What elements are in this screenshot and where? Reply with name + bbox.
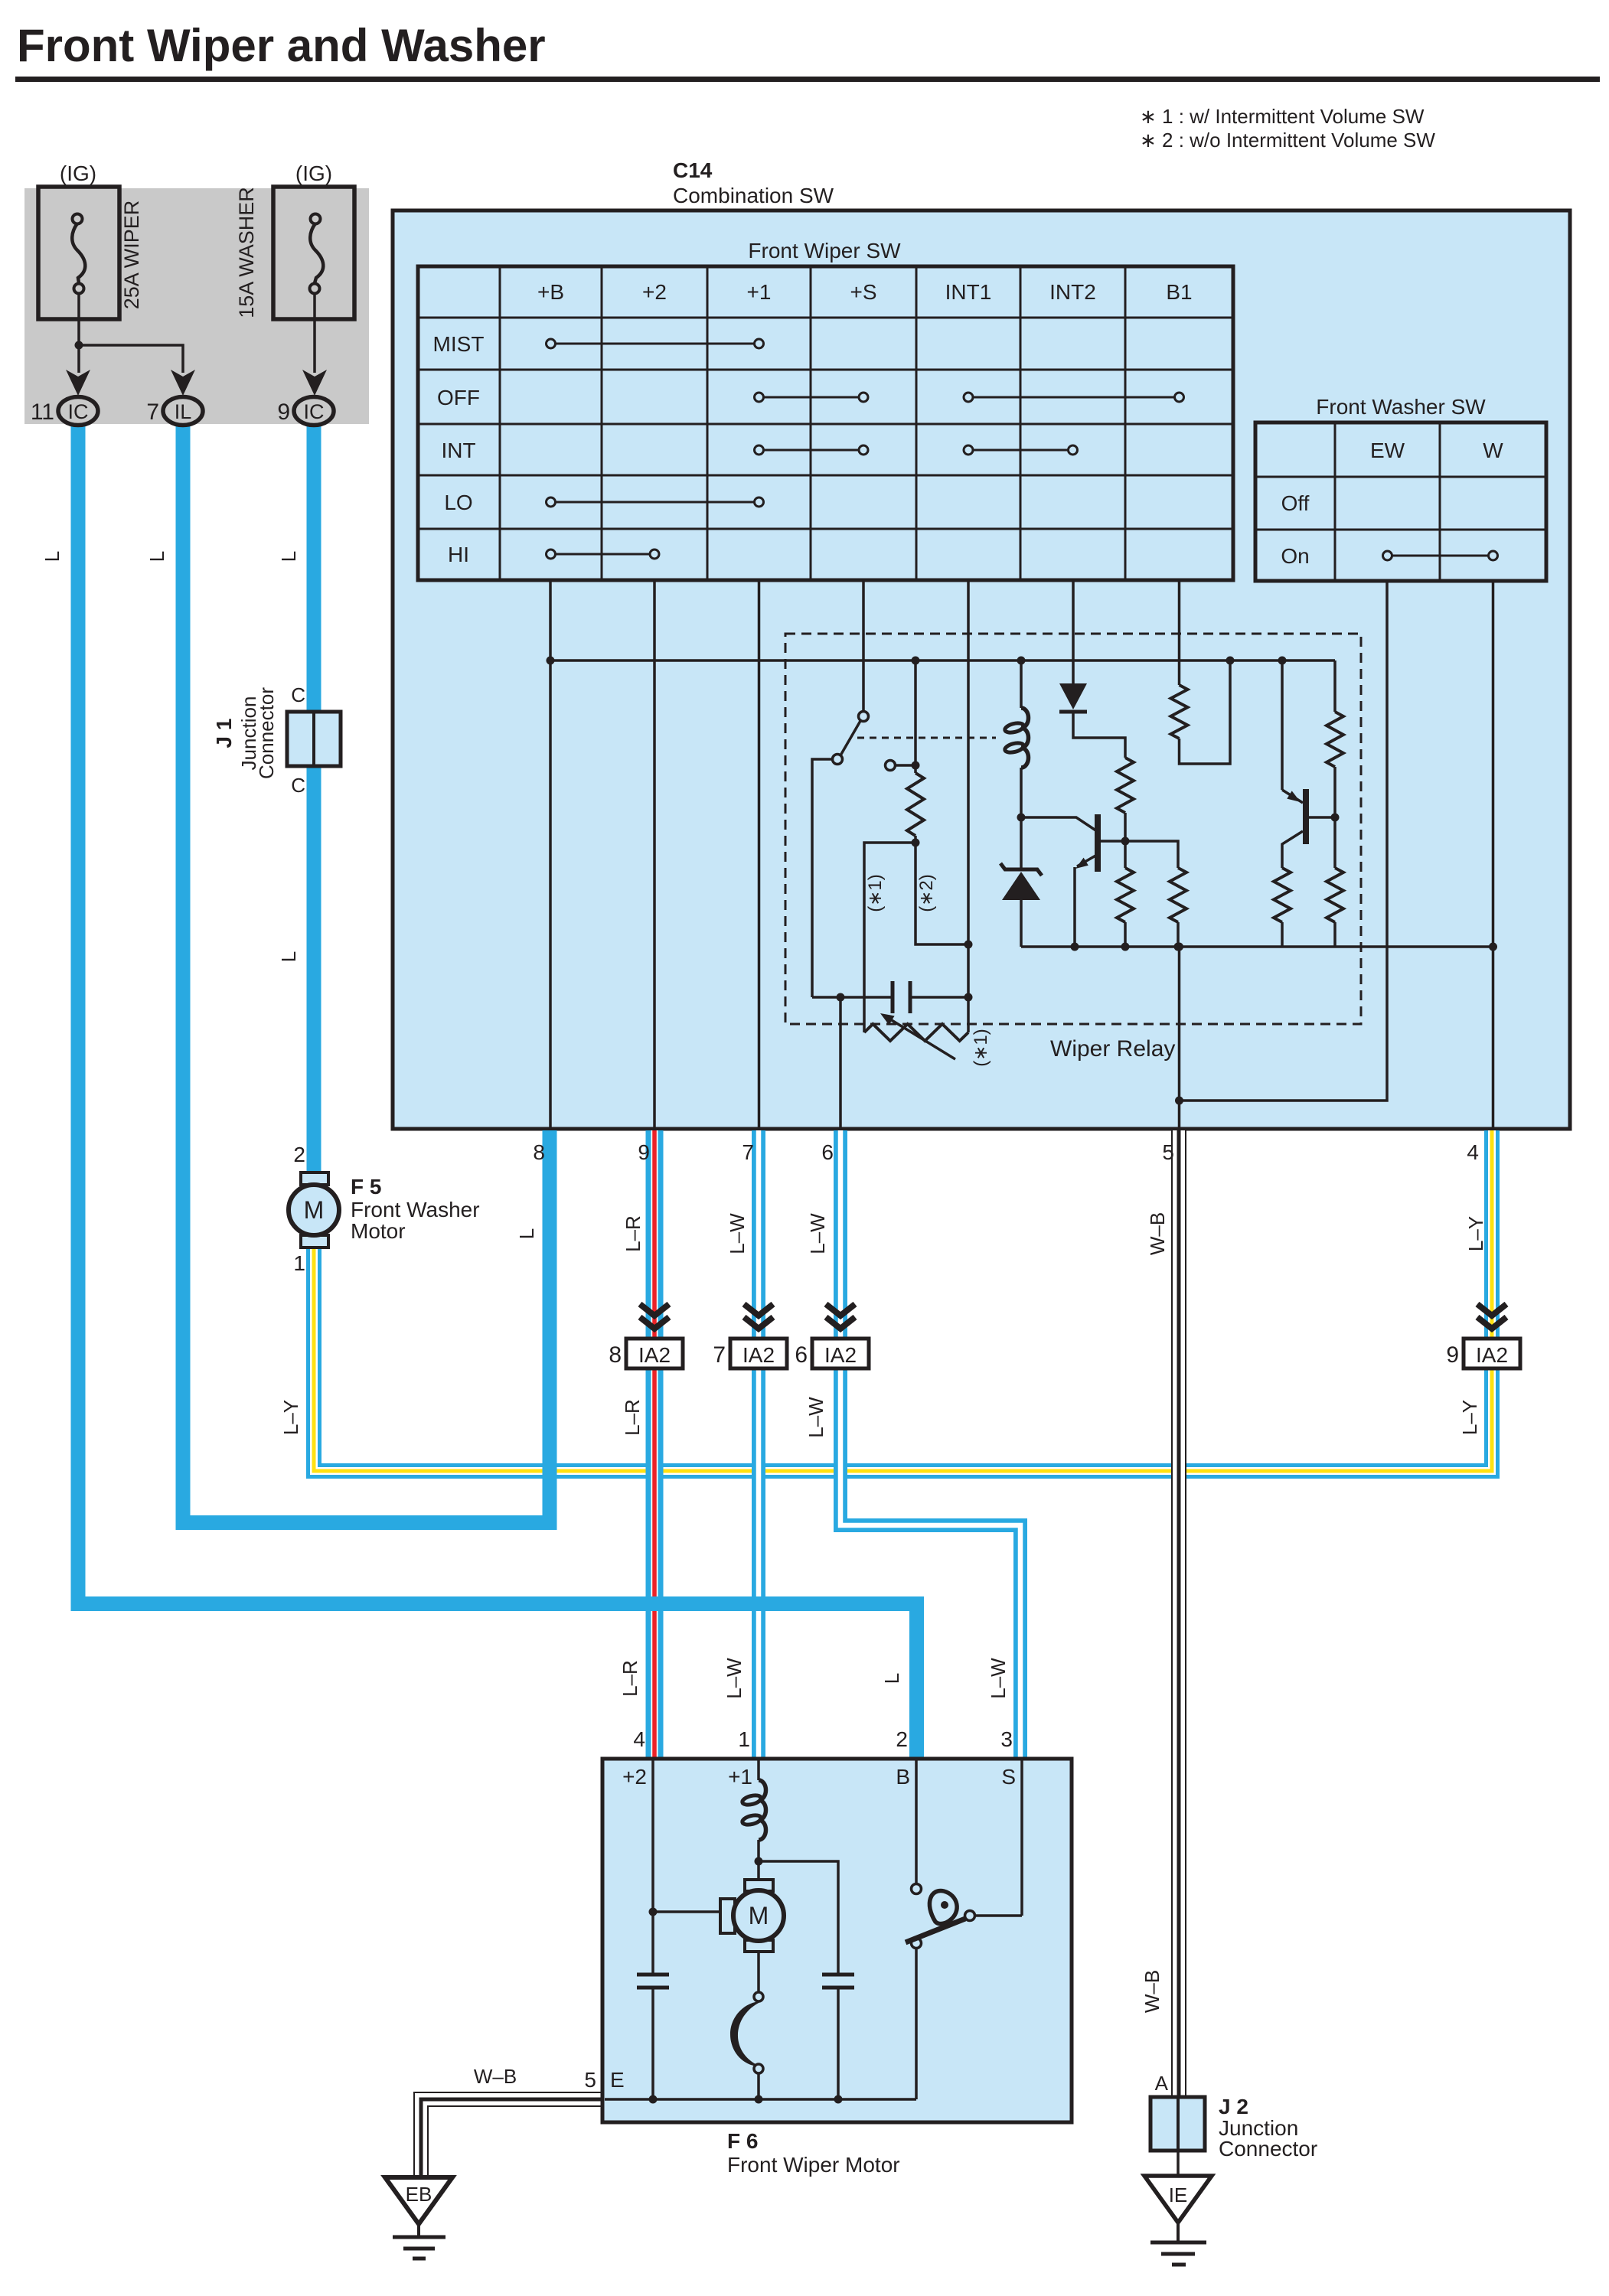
svg-text:INT2: INT2 — [1049, 280, 1096, 304]
wire INT2 column to diode — [1072, 580, 1075, 685]
front washer switch table grid — [1255, 422, 1546, 581]
svg-text:L–W: L–W — [804, 1397, 827, 1438]
park switch — [906, 1884, 975, 1949]
relay bottom rail left — [812, 996, 893, 999]
resistor R5 — [1117, 841, 1134, 947]
relay bottom rail right — [910, 996, 968, 999]
connector oval 11 IC — [58, 397, 98, 426]
wire +1 column to pin 7 — [758, 580, 761, 1130]
svg-text:+1: +1 — [728, 1765, 752, 1789]
wire fuse2 down — [313, 293, 316, 373]
contact MIST +B to +1 — [556, 343, 755, 345]
junction dot rail INT1 — [964, 993, 973, 1002]
wire EW column to pin 5 node — [1179, 581, 1387, 1101]
svg-text:W–B: W–B — [1146, 1212, 1169, 1255]
svg-text:L: L — [515, 1228, 538, 1239]
svg-text:S: S — [1001, 1765, 1016, 1789]
svg-text:6: 6 — [821, 1140, 834, 1164]
ground IE — [1144, 2176, 1212, 2265]
wiper relay dashed border — [785, 634, 1361, 1024]
svg-text:L–Y: L–Y — [1464, 1216, 1487, 1251]
svg-text:8: 8 — [533, 1140, 545, 1164]
svg-text:(∗1): (∗1) — [865, 874, 886, 912]
svg-text:E: E — [610, 2068, 625, 2092]
connector IA2-9 arrows — [1477, 1304, 1506, 1316]
svg-text:1: 1 — [293, 1251, 305, 1275]
svg-text:1: 1 — [738, 1727, 750, 1751]
wire +2 internal — [651, 1759, 654, 1975]
svg-text:MIST: MIST — [433, 332, 485, 356]
svg-text:Front Washer: Front Washer — [351, 1198, 480, 1221]
svg-text:∗ 1 : w/ Intermittent Volume S: ∗ 1 : w/ Intermittent Volume SW — [1140, 105, 1425, 128]
fuse 15A WASHER element — [310, 214, 324, 294]
svg-text:IA2: IA2 — [742, 1343, 775, 1367]
relay coil — [1004, 660, 1029, 817]
svg-text:7: 7 — [742, 1140, 754, 1164]
wire park switch to S — [975, 1914, 1022, 1917]
svg-text:9: 9 — [1446, 1342, 1459, 1368]
supply bus — [550, 659, 1335, 662]
svg-text:Connector: Connector — [255, 687, 278, 779]
wire rail to pin 5 — [1178, 947, 1181, 1130]
capacitor C1 — [637, 1975, 669, 2099]
capacitor C2 — [822, 1975, 854, 2099]
svg-text:2: 2 — [293, 1143, 305, 1166]
svg-text:+2: +2 — [622, 1765, 647, 1789]
svg-text:L: L — [880, 1673, 903, 1684]
rail dots F6 — [649, 2095, 843, 2104]
wire (*2) branch — [915, 843, 968, 944]
relay fixed contact — [886, 761, 916, 771]
svg-text:L: L — [145, 551, 168, 562]
junction dot fixed contact — [912, 762, 920, 770]
capacitor C3 — [893, 981, 910, 1013]
svg-text:5: 5 — [1162, 1140, 1174, 1164]
svg-text:IC: IC — [304, 400, 325, 423]
variable resistor (*1) — [864, 1013, 968, 1059]
svg-text:L: L — [277, 951, 300, 962]
resistor R3 — [1171, 660, 1231, 764]
connector IA2-9 box — [1464, 1339, 1520, 1368]
resistor R8 — [1327, 817, 1343, 947]
svg-text:B1: B1 — [1166, 280, 1192, 304]
junction connector J1 — [287, 712, 341, 766]
wire W-B pin 5 to J2 — [1171, 1130, 1186, 2099]
svg-text:IA2: IA2 — [638, 1343, 671, 1367]
svg-text:LO: LO — [444, 491, 472, 514]
wire B1 column to resistor R3 — [1178, 580, 1181, 685]
contact INT +1 to +S — [764, 449, 860, 452]
svg-text:9: 9 — [638, 1140, 650, 1164]
svg-text:Combination SW: Combination SW — [673, 184, 834, 207]
wire L fuse 11-IC to wiper motor B — [78, 419, 917, 1760]
washer table row labels — [1281, 491, 1309, 568]
svg-text:6: 6 — [795, 1342, 808, 1368]
svg-text:C: C — [291, 774, 305, 797]
svg-text:L–R: L–R — [622, 1215, 645, 1252]
wire +2 to motor — [653, 1910, 724, 1913]
zener diode ZD1 — [1000, 817, 1042, 947]
svg-text:+1: +1 — [747, 280, 772, 304]
relay switch moving contact — [812, 712, 869, 998]
contact On EW to W — [1392, 555, 1489, 557]
diode D1 — [1059, 683, 1125, 758]
svg-text:B: B — [896, 1765, 910, 1789]
transistor Q2 — [1282, 660, 1335, 868]
junction dot +2 — [649, 1908, 658, 1916]
svg-text:L–W: L–W — [723, 1658, 746, 1699]
svg-text:(∗2): (∗2) — [916, 874, 937, 912]
wire S internal — [1020, 1759, 1023, 1916]
svg-text:OFF: OFF — [437, 386, 480, 409]
svg-text:4: 4 — [1467, 1140, 1479, 1164]
svg-text:Motor: Motor — [351, 1219, 406, 1243]
connector IA2-8 arrows — [640, 1304, 669, 1316]
wire L-W pin 7 to wiper motor +1 — [752, 1130, 765, 1760]
table column headers — [537, 280, 1193, 304]
svg-text:L–Y: L–Y — [279, 1400, 302, 1435]
svg-text:3: 3 — [1000, 1727, 1013, 1751]
svg-text:2: 2 — [896, 1727, 908, 1751]
junction dot Q1 base — [1121, 837, 1130, 846]
junction dot rail pin5 — [1175, 943, 1183, 951]
arrow into 7 IL — [171, 370, 195, 396]
svg-text:W: W — [1483, 439, 1503, 462]
junction dot fuse branch — [75, 341, 83, 350]
svg-text:L: L — [277, 551, 300, 562]
svg-text:L–R: L–R — [621, 1399, 644, 1436]
svg-text:∗ 2 : w/o Intermittent Volume: ∗ 2 : w/o Intermittent Volume SW — [1140, 129, 1435, 152]
wire L fuse 7-IL to pin 8 — [183, 419, 550, 1523]
combination switch C14 box — [393, 210, 1570, 1129]
connector IA2-8 box — [626, 1339, 683, 1368]
svg-text:IE: IE — [1169, 2183, 1188, 2206]
svg-text:EB: EB — [406, 2183, 432, 2206]
svg-text:(∗1): (∗1) — [971, 1029, 991, 1066]
svg-text:4: 4 — [633, 1727, 645, 1751]
table row labels — [433, 332, 485, 566]
svg-text:HI: HI — [448, 543, 469, 566]
junction dot pin6 branch — [837, 993, 845, 1002]
fuse block background — [24, 188, 369, 424]
junction dot +1 — [755, 1857, 763, 1866]
contact HI +B to +2 — [556, 553, 651, 556]
ground EB — [385, 2177, 452, 2258]
junction dot below R1 — [912, 839, 920, 847]
svg-text:INT1: INT1 — [945, 280, 992, 304]
bus junction dots — [547, 657, 1287, 665]
svg-text:8: 8 — [609, 1342, 622, 1368]
wire (*1) branch — [864, 843, 915, 1032]
svg-text:25A WIPER: 25A WIPER — [120, 201, 143, 310]
wire L-Y washer motor to pin 4 — [314, 1130, 1492, 1471]
wire W-B wiper motor E to ground EB — [421, 2099, 605, 2179]
svg-text:L–W: L–W — [987, 1658, 1010, 1699]
svg-text:(IG): (IG) — [60, 161, 96, 185]
resistor R1 — [907, 773, 924, 843]
svg-text:C14: C14 — [673, 158, 713, 182]
fuse 25A WIPER box — [38, 187, 119, 319]
svg-text:W–B: W–B — [474, 2065, 517, 2088]
svg-text:Front Wiper SW: Front Wiper SW — [748, 239, 901, 263]
wire L-W pin 6 to wiper motor S — [840, 1130, 1020, 1760]
svg-text:5: 5 — [584, 2068, 596, 2092]
washer table headers — [1370, 439, 1503, 462]
wire L fuse 9-IC to washer motor F5 — [307, 419, 321, 1174]
contact OFF +1 to +S — [764, 396, 860, 399]
wire branch to IL — [79, 345, 183, 373]
wire pin 6 inside — [839, 997, 842, 1130]
transistor Q1 — [1021, 814, 1125, 947]
resistor R4 — [1327, 660, 1343, 817]
svg-text:INT: INT — [441, 439, 475, 462]
svg-text:+2: +2 — [642, 280, 667, 304]
svg-text:IA2: IA2 — [824, 1343, 857, 1367]
F6 ground rail — [605, 2098, 916, 2101]
svg-text:A: A — [1155, 2072, 1169, 2095]
svg-text:Front Wiper and Washer: Front Wiper and Washer — [17, 20, 546, 71]
svg-text:(IG): (IG) — [295, 161, 332, 185]
relay ground rail — [1021, 945, 1493, 948]
svg-text:Front Washer SW: Front Washer SW — [1316, 395, 1486, 419]
svg-text:7: 7 — [713, 1342, 726, 1368]
connector IA2-6 box — [812, 1339, 869, 1368]
svg-text:IL: IL — [175, 400, 192, 423]
wire J2 to ground — [1177, 2151, 1180, 2177]
junction dot coil bottom — [1017, 814, 1026, 822]
wire B internal — [915, 1759, 918, 1884]
svg-text:W–B: W–B — [1141, 1970, 1164, 2013]
svg-text:M: M — [749, 1902, 769, 1929]
junction connector J2 — [1150, 2097, 1205, 2151]
resistor R2 — [1117, 758, 1134, 841]
svg-text:11: 11 — [31, 400, 54, 425]
connector IA2-6 arrows — [826, 1304, 855, 1316]
motor field coil — [742, 1780, 766, 1861]
connector oval 9 IC — [294, 397, 334, 426]
wire fuse1 to junction — [77, 293, 80, 373]
wire +1 to C2 — [759, 1861, 838, 1975]
svg-text:Off: Off — [1281, 491, 1310, 515]
svg-text:+B: +B — [537, 280, 564, 304]
svg-text:J 1: J 1 — [212, 719, 236, 748]
wire W column to pin 4 — [1492, 581, 1495, 1130]
svg-text:M: M — [304, 1196, 325, 1224]
wire +1 internal — [757, 1759, 760, 1780]
svg-text:IA2: IA2 — [1476, 1343, 1508, 1367]
svg-text:Wiper Relay: Wiper Relay — [1050, 1036, 1175, 1062]
wire L-R pin 9 to wiper motor +2 — [646, 1130, 664, 1760]
svg-text:Connector: Connector — [1219, 2137, 1317, 2161]
svg-text:L–W: L–W — [726, 1213, 749, 1254]
contact LO +B to +1 — [556, 501, 755, 504]
svg-text:L–R: L–R — [618, 1660, 641, 1697]
svg-text:15A WASHER: 15A WASHER — [235, 187, 258, 318]
svg-text:C: C — [291, 683, 305, 706]
wire +B column to pin 8 — [549, 580, 552, 1130]
svg-text:9: 9 — [277, 400, 290, 425]
wire +S column to relay switch — [862, 580, 865, 711]
svg-text:L–Y: L–Y — [1458, 1400, 1481, 1435]
junction dot Q2 base — [1331, 814, 1340, 822]
svg-text:EW: EW — [1370, 439, 1405, 462]
title underline — [15, 77, 1600, 82]
arrow into 9 IC — [302, 370, 327, 396]
wire base to R6 — [1125, 841, 1178, 868]
front wiper switch table grid — [418, 266, 1233, 580]
resistor R7 — [1274, 868, 1291, 947]
front washer motor F5 — [289, 1172, 339, 1247]
wire INT1 column down — [967, 580, 970, 1032]
connector IA2-7 box — [730, 1339, 787, 1368]
svg-text:Front Wiper Motor: Front Wiper Motor — [727, 2153, 900, 2177]
rail junction dots — [1071, 943, 1498, 951]
circuit breaker — [730, 1952, 763, 2099]
svg-text:IC: IC — [68, 400, 89, 423]
arrow into 11 IC — [66, 370, 90, 396]
junction dot (*2) — [964, 941, 973, 949]
relay switch mechanical link — [857, 737, 996, 739]
connector oval 7 IL — [163, 397, 203, 426]
svg-text:L–W: L–W — [806, 1213, 829, 1254]
wire B to rail — [915, 1948, 918, 2099]
svg-text:F 5: F 5 — [351, 1175, 381, 1199]
front wiper motor F6 box — [602, 1759, 1072, 2122]
fuse 15A WASHER box — [273, 187, 354, 319]
resistor R6 — [1170, 868, 1186, 947]
motor M F6 — [720, 1861, 784, 1952]
junction dot pin5 EW — [1175, 1097, 1183, 1105]
svg-text:On: On — [1281, 544, 1309, 568]
svg-text:+S: +S — [850, 280, 876, 304]
wire +2 column to pin 9 — [653, 580, 656, 1130]
svg-text:F 6: F 6 — [727, 2129, 758, 2153]
wire bus to R1 — [914, 660, 917, 773]
svg-text:J 2: J 2 — [1219, 2095, 1248, 2118]
contact OFF INT1 to B1 — [973, 396, 1175, 399]
contact INT INT1 to INT2 — [973, 449, 1069, 452]
connector IA2-7 arrows — [744, 1304, 773, 1316]
svg-text:7: 7 — [146, 400, 159, 425]
svg-text:L: L — [41, 551, 64, 562]
fuse 25A WIPER element — [72, 214, 85, 294]
